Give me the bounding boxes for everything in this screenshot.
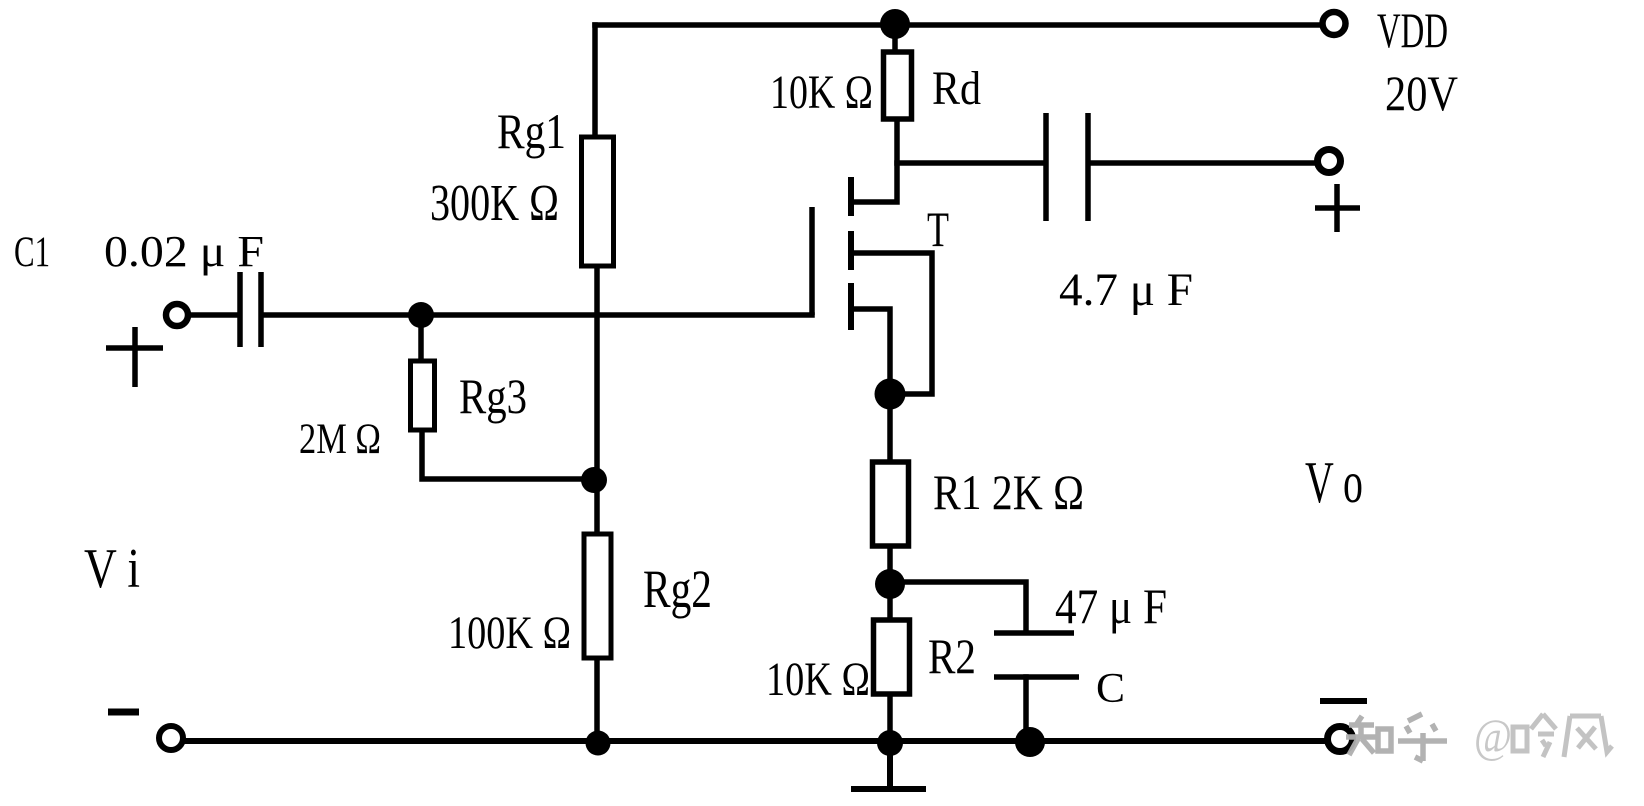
wire source node to bypass cap C: [890, 582, 1026, 631]
svg-text:@: @: [1474, 710, 1512, 763]
resistor Rg2 100K: [584, 534, 611, 658]
svg-text:R2: R2: [928, 628, 976, 684]
resistor Rg1 300K: [582, 137, 614, 266]
junction dot bottom rail at R2: [877, 730, 903, 756]
junction dot top rail: [880, 9, 910, 39]
junction dot bottom rail at C: [1015, 727, 1045, 757]
junction dot Rg3/Rg2 node: [581, 467, 607, 493]
svg-text:R1 2K Ω: R1 2K Ω: [933, 464, 1084, 520]
wire output cap to terminal: [1093, 160, 1314, 166]
wire R2 bottom to bottom rail: [887, 694, 893, 742]
svg-text:C1: C1: [14, 229, 50, 276]
wire Rg2 bottom to bottom rail: [594, 658, 600, 742]
resistor R1 2K: [873, 462, 909, 546]
watermark at-yinfeng: [1474, 710, 1612, 763]
node input terminal circle: [166, 304, 188, 326]
node Vo terminal circle: [1328, 727, 1353, 752]
svg-text:Rg3: Rg3: [459, 368, 527, 424]
capacitor C1 plates: [240, 272, 261, 347]
wire source contact to dot: [851, 309, 890, 394]
node Vi bottom terminal circle: [159, 726, 183, 750]
wire drain branch to output cap: [897, 160, 1041, 166]
junction dot R1/R2 node: [875, 569, 905, 599]
resistor Rg3 2M: [411, 361, 435, 430]
wire gate node down to Rg3: [418, 315, 424, 360]
wire Rd bottom to drain: [851, 119, 897, 202]
node input plus sign: [106, 327, 163, 387]
svg-text:300K Ω: 300K Ω: [430, 175, 559, 232]
svg-text:Rd: Rd: [932, 62, 981, 115]
svg-text:4.7 μ F: 4.7 μ F: [1059, 264, 1193, 316]
wire bypass cap C to bottom rail: [1023, 677, 1029, 741]
wire R1 bottom to R2 top: [887, 546, 893, 620]
node output plus sign: [1315, 184, 1360, 232]
svg-text:100K Ω: 100K Ω: [448, 607, 571, 659]
node Vi minus sign: [108, 709, 139, 716]
node output terminal circle: [1318, 150, 1341, 173]
resistor Rd 10K: [884, 52, 912, 119]
capacitor 4.7uF plates: [1046, 113, 1088, 221]
svg-text:20V: 20V: [1385, 65, 1458, 121]
wire top rail: [595, 22, 1319, 28]
svg-text:Rg2: Rg2: [643, 559, 712, 619]
node VDD terminal circle: [1323, 12, 1346, 35]
ground: [851, 742, 926, 789]
wire source dot to R1: [887, 394, 893, 462]
junction dot gate node: [408, 302, 434, 328]
svg-text:T: T: [927, 201, 949, 257]
wire C1 to gate: [263, 312, 812, 318]
junction dot source node: [875, 379, 906, 410]
svg-text:47 μ F: 47 μ F: [1055, 578, 1167, 634]
svg-text:V i: V i: [84, 538, 140, 600]
wire Rg1 bottom to Rg2 top: [594, 266, 600, 534]
wire top rail drop to Rg1: [592, 25, 598, 137]
watermark zhihu: [1346, 714, 1447, 761]
svg-text:C: C: [1096, 666, 1125, 712]
svg-text:0.02 μ F: 0.02 μ F: [104, 227, 264, 276]
svg-text:10K Ω: 10K Ω: [766, 653, 870, 706]
wire VDD dot to Rd: [892, 24, 898, 52]
node Vo minus sign: [1320, 698, 1367, 704]
resistor R2 10K: [874, 620, 910, 694]
junction dot bottom rail at Rg2: [586, 731, 611, 756]
wire Rg3 bottom elbow: [422, 430, 594, 479]
wire body contact to source dot: [851, 253, 932, 394]
svg-text:V o: V o: [1305, 449, 1363, 515]
svg-text:2M Ω: 2M Ω: [299, 416, 381, 463]
transistor T gate bar: [809, 207, 815, 315]
svg-text:VDD: VDD: [1377, 2, 1448, 58]
svg-text:10K Ω: 10K Ω: [770, 66, 873, 119]
svg-text:Rg1: Rg1: [497, 103, 566, 159]
wire input terminal to C1: [189, 312, 238, 318]
wire bottom rail: [183, 738, 1325, 744]
capacitor C 47uF plates: [994, 633, 1079, 677]
transistor T channel dashes: [848, 177, 854, 330]
